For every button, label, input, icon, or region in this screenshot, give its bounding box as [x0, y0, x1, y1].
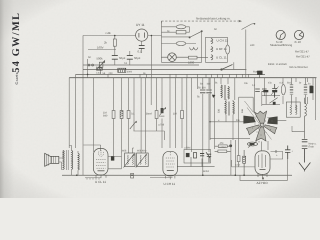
resistor at 128.5	[127, 111, 130, 119]
component value smudges below bus	[200, 82, 311, 123]
mains switch at (221-234,64-69.5)	[221, 65, 233, 71]
wire left drop x=75.6	[75, 74, 77, 148]
wire drop x=182	[181, 78, 183, 148]
wire y=168.8 from tube1 to vertical	[108, 153, 122, 169]
output tube 1 oval	[93, 148, 108, 177]
rectifier smoothing cap at (139.5,45.6)	[139, 46, 145, 49]
magic fan outlined bottom blade	[256, 127, 266, 141]
electrolytic cap 1 at (112-118,55-60)	[112, 56, 118, 60]
tube 3 oval UY11 bottom right	[255, 151, 270, 178]
ladder coil at 305.5	[304, 78, 307, 104]
dark arrowhead at (213.5,96)	[212, 95, 216, 98]
resistor at 182	[181, 111, 184, 119]
wire drop x=283 oval resistor lead	[282, 78, 284, 104]
tube 2 oval UCH11	[163, 151, 178, 179]
small caps at (199-205,89-94) and (206-211,89-94)	[200, 90, 212, 93]
dark diode blob on bus at (257-262.5,70.5-75)	[257, 71, 262, 75]
wire horizontal into fan y=121.8	[209, 78, 286, 148]
wire mains vertical x=246.4	[245, 30, 247, 78]
title: Graetz 54 GW/ML vertical	[11, 12, 22, 85]
shield box right of tube2	[184, 150, 211, 164]
wire drop x=93.5	[93, 78, 95, 152]
resistor at 156.5	[155, 111, 158, 119]
dark cap left of band filter	[111, 156, 114, 160]
rectifier tube UY11 circle	[136, 29, 148, 41]
wire seg y=131	[134, 131, 165, 140]
speaker	[45, 153, 59, 166]
dark caps pair above fan right	[263, 90, 277, 92]
cap at (284.9-290.6,148-153.2)	[285, 146, 290, 160]
hatched pot box 1 at (96.5-102.3,67.8-70.1)	[97, 68, 103, 70]
wire drop x=113.5	[113, 78, 115, 156]
caps bottom right mid at (255-261.5,87.8-92.9)	[255, 89, 266, 91]
wire y=65 segment	[83, 64, 199, 66]
cap small on earth stem	[302, 139, 308, 162]
small parts in shield box	[177, 152, 215, 166]
wire ticks between bus B and C	[101, 70, 249, 78]
dark resistor w arrow at 162	[159, 107, 166, 118]
wire bottom bus y=175.2	[62, 174, 292, 176]
wire drop x=151.4 rectifier right	[150, 36, 152, 70]
wire extra drops	[151, 78, 197, 150]
IF coil pair 1 at x 219.6-223 & 226.4-229.8, y 84.8-100	[221, 85, 229, 100]
magic fan outlined top blade	[246, 111, 277, 141]
dial lamp circle	[161, 53, 188, 62]
hatched pot box 2 at (117.5-126,67.4-73)	[118, 68, 126, 72]
wire loop right of tube3	[271, 151, 283, 159]
wire switch to block vertical	[233, 62, 235, 69]
small resistor at (237-240,155.5-161.5)	[237, 148, 240, 167]
wire tube1 top feed	[83, 145, 100, 151]
wire rectifier cap drop	[141, 42, 143, 54]
heater labels	[216, 39, 228, 60]
variable arrow component at (269-278,97-105)	[262, 92, 280, 104]
resistor hatched at (242.7-245.5,155-163.4)	[243, 150, 246, 175]
TA input jacks	[88, 64, 90, 66]
wire heater rail verticals	[205, 37, 227, 62]
wire drop x=234.8	[234, 78, 236, 100]
dark resistor at 121.5	[120, 111, 123, 119]
wire drop x=214.6	[214, 78, 216, 149]
band filter box 2	[136, 153, 148, 168]
wires below fan to tube3	[231, 140, 268, 175]
switch lever top right	[242, 24, 255, 30]
ladder coil at 291.5	[290, 78, 293, 105]
knob circle 2	[294, 30, 303, 39]
vertical tiny labels left of coils	[218, 108, 245, 113]
wire drop x=254.5	[254, 78, 256, 112]
wire bus C y=77.7	[69, 77, 316, 79]
wire tube3 bottom to bus	[240, 159, 288, 180]
misc small labels scattered	[88, 28, 278, 173]
oval resistor at (281.6-285.4,84-95.4)	[281, 85, 285, 95]
fan speckle dots	[251, 117, 273, 136]
wire drop x=202.8	[202, 78, 204, 176]
fuse oval 2	[176, 42, 186, 46]
power section: fuse oval 1	[176, 25, 202, 50]
fan center circle	[260, 123, 264, 127]
electrolytic cap 2 at (126-133,55-60)	[127, 56, 133, 60]
wire drop x=156.5	[156, 78, 158, 131]
wire left boundary vertical x=83	[82, 36, 84, 176]
small resistor under filter on bus	[131, 173, 134, 178]
wire power block outline	[161, 21, 201, 62]
transformer core lines	[67, 150, 69, 170]
wire y=167 to tube3	[232, 160, 255, 167]
wire dashed mains feed y=21.1	[161, 21, 238, 24]
wire coil bottoms	[226, 99, 233, 140]
wire vertical x=87.6	[87, 59, 89, 78]
choke coil at x=304.5 y 103-116	[305, 98, 307, 139]
wire y=156.5 from tube1 to vertical	[108, 156, 122, 158]
arrow head of dashed line	[239, 20, 242, 22]
output transformer winding 3	[78, 153, 79, 170]
wire bus A y=69.5	[83, 69, 246, 71]
output transformer winding 1	[63, 150, 79, 170]
wire bus B y=74.4	[76, 73, 265, 75]
wire drop x=134	[133, 78, 135, 153]
wire lamp leads	[161, 56, 188, 58]
output transformer winding 2	[72, 151, 73, 170]
dashed line to dial, top	[161, 21, 254, 29]
magic fan dark right blade	[267, 116, 277, 124]
voltage selector diagonals	[190, 31, 202, 37]
resistor oval on right heater branch	[226, 45, 230, 54]
wire drop filter2 leads	[141, 78, 145, 153]
bus text smudges	[103, 72, 147, 75]
knob circle 1	[276, 30, 285, 39]
wire drop x=296 coil lead	[295, 78, 297, 110]
wire speaker connections	[59, 146, 78, 176]
knob labels	[270, 40, 309, 54]
resistor right of lamp	[189, 56, 209, 59]
variable resistor w arrow at (99.5-103,62-67.2)	[98, 61, 105, 69]
IF coil pair 2 at x 225 & 233, y 101-115.6	[225, 102, 234, 116]
wire drop x=191.6	[191, 78, 193, 152]
wire +UB segment y=49.5	[88, 49, 116, 51]
variable cap with arrow at (270-279,84-96.7)	[271, 84, 279, 97]
dark cap at (207-211,153.5-157)	[207, 154, 211, 162]
urdox bimetal symbol	[190, 48, 198, 51]
wire fan top feed	[261, 91, 263, 106]
band filter box 1	[124, 153, 136, 168]
wire drop x=128.5	[128, 78, 130, 153]
horizontal resistor pair right of shield box	[215, 145, 231, 153]
wire drop x=162	[161, 78, 163, 148]
dark smudge on pot	[250, 143, 255, 145]
junction dots bottom bus	[76, 35, 264, 179]
resistor rect in power block	[176, 31, 186, 34]
wire H1 top bus y=35.5	[83, 35, 162, 37]
wire right edge vertical x=318	[315, 78, 317, 120]
component row y 110.5-118.5: resistor at 113.5	[112, 111, 115, 119]
wire drop x=228 coil lead	[227, 78, 229, 84]
magic fan lower-left blade	[246, 125, 259, 135]
wire drop x=307.5 coil lead	[307, 78, 309, 104]
dark cap at (309.3-313.3,85.3-94)	[310, 86, 314, 94]
wire drop x=264.6	[264, 78, 266, 96]
wire left drop x=69.2 to transformer	[68, 78, 70, 148]
page left edge shading	[0, 0, 14, 198]
wire drop x=221 coil lead	[220, 78, 222, 84]
wire drop x=121.5	[121, 78, 123, 153]
wire caps at 114.8/129.8	[115, 50, 130, 66]
coil box at (286.3-300.2,102-117.2)	[286, 102, 300, 117]
ground arrow bottom right	[299, 163, 311, 172]
variable arrow at 130-136	[130, 121, 136, 129]
small pot with arrow below fan left	[247, 142, 257, 148]
wire drop x=313 cap lead	[312, 78, 314, 100]
wire y=131.7	[292, 126, 305, 132]
resistor R vertical at (114.8, 39-46)	[113, 36, 116, 50]
magic fan tuning indicator: dark left blade	[243, 116, 255, 124]
magic fan lower-right blade	[265, 125, 277, 134]
dark node dot	[229, 144, 232, 147]
heater chain filaments	[211, 39, 213, 60]
diagonal drive lines across fan	[245, 101, 272, 140]
wire drop x=209	[208, 78, 210, 152]
